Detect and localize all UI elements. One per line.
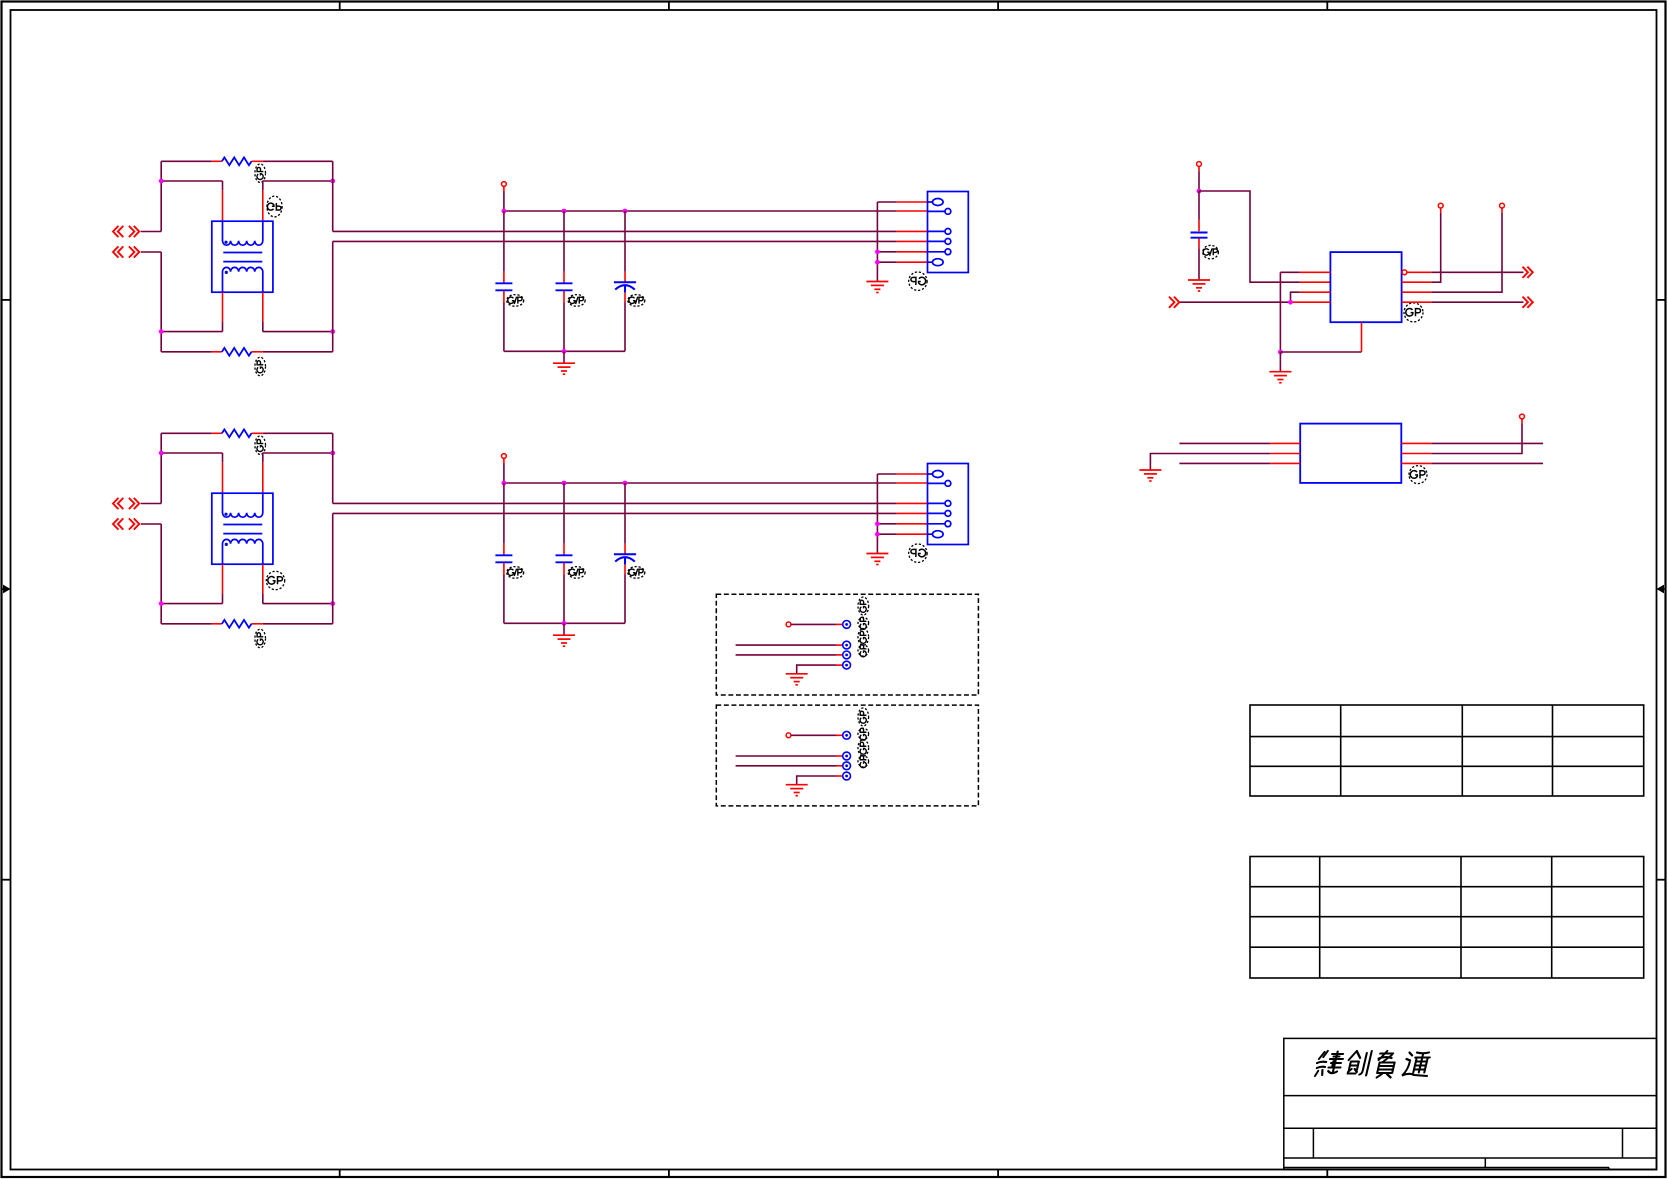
wire cap C1 lower (2) xyxy=(503,563,505,575)
junction conn-5 (1) xyxy=(875,249,880,254)
wire U1 pinC-R (TR) xyxy=(1402,291,1432,293)
wire xfmr pin bottom-left (1) xyxy=(222,292,224,322)
wire cap C3 upper (1) xyxy=(624,211,626,272)
bubble U1 pinA-R (TR) xyxy=(1402,270,1407,275)
label R1b xyxy=(255,357,266,376)
wire terminal stub (TR) xyxy=(1198,166,1200,171)
capacitor C2 (1) xyxy=(556,283,573,290)
junction cap-gnd (1) xyxy=(562,349,567,354)
resistor R1b leads xyxy=(212,351,222,353)
wire terminal stub (2) xyxy=(503,458,505,463)
wire pin4 (OPT1) xyxy=(797,665,836,673)
wire top (1) xyxy=(161,160,212,162)
wire row2 left (2) xyxy=(161,452,222,454)
IC U2 (RM) xyxy=(1300,424,1401,483)
junction rail-3 (2) xyxy=(623,481,628,486)
wire U1 pinD-R (TR) xyxy=(1402,301,1432,303)
wire xfmr pin top-left (2) xyxy=(222,453,224,462)
wire cap C3 upper (2) xyxy=(624,483,626,544)
junction rail-1 (2) xyxy=(502,481,507,486)
wire pin2 (OPT1) xyxy=(736,644,836,646)
wire row3 left (2) xyxy=(161,603,222,605)
label J1 xyxy=(909,272,927,290)
wire cap rail (1) xyxy=(504,210,897,212)
off-page connector input 1 (1) xyxy=(113,226,123,237)
wire row2 right (2) xyxy=(263,452,333,454)
wire cap C2 lower (1) xyxy=(563,291,565,303)
label C3 (1) xyxy=(628,295,645,307)
socket pin4 (OPT1) xyxy=(843,661,851,669)
terminal (OPT2) xyxy=(786,733,791,738)
wire top (2) xyxy=(161,432,212,434)
wire cap C4 upper (TR) xyxy=(1198,191,1200,220)
wire xfmr pin bottom-right (2) xyxy=(262,564,264,594)
ground (OPT2) xyxy=(786,785,808,796)
wire row3 left (1) xyxy=(161,331,222,333)
capacitor C2 (2) xyxy=(556,555,573,562)
capacitor C1 (1) xyxy=(495,283,512,290)
terminal VCC (2) xyxy=(502,454,507,459)
wire bus B (1) xyxy=(333,240,897,242)
junction gnd bus (TR) xyxy=(1278,350,1283,355)
resistor R2b xyxy=(222,620,252,628)
socket pin2 (OPT2) xyxy=(843,752,851,760)
capacitor C1 (2) xyxy=(495,555,512,562)
wire bottom (2) xyxy=(161,623,212,625)
wire xfmr pin top-left (1) xyxy=(222,181,224,190)
wire left rail upper (1) xyxy=(160,161,162,231)
junction conn-5 (2) xyxy=(875,521,880,526)
wire right rail lower (2) xyxy=(332,513,334,623)
socket pin4 (OPT2) xyxy=(843,772,851,780)
connector J1 xyxy=(928,192,969,273)
socket pin3 (OPT1) xyxy=(843,651,851,659)
wire cap C2 lower (2) xyxy=(563,563,565,575)
junction rail-2 (2) xyxy=(562,481,567,486)
terminal U2 pin2R (RM) xyxy=(1520,414,1525,419)
wire U1 pinA-R out (TR) xyxy=(1407,271,1432,273)
label R2a xyxy=(255,436,266,455)
junction pinC/D (TR) xyxy=(1288,300,1293,305)
wire cap rail (2) xyxy=(504,482,897,484)
off-page connector input 2 (2) xyxy=(113,518,123,529)
wire gnd horizontal (TR) xyxy=(1280,351,1361,353)
wire row2 right (1) xyxy=(263,180,333,182)
label net4 (OPT2) xyxy=(858,756,869,768)
wire input 1 (2) xyxy=(141,503,162,505)
ground U2 (RM) xyxy=(1139,470,1161,481)
wire pin1 (OPT2) xyxy=(791,734,836,736)
wire to IC pin2 (TR) xyxy=(1199,191,1300,282)
revision table 1 xyxy=(1250,705,1644,796)
wire bus A (1) xyxy=(333,230,897,232)
terminal (OPT1) xyxy=(786,622,791,627)
label net3 (OPT1) xyxy=(858,629,869,645)
wire input 2 (1) xyxy=(141,251,162,253)
junction row3-right (1) xyxy=(330,329,335,334)
wire gnd stub (2) xyxy=(563,623,565,635)
wire gnd stub (TR) xyxy=(1279,352,1281,371)
wire terminal stub (1) xyxy=(503,186,505,191)
wire conn pin6 (2) xyxy=(877,533,896,535)
wire right rail upper (2) xyxy=(332,433,334,503)
wire cap C4 lower (TR) xyxy=(1198,238,1200,248)
wire U1 pinD (TR) xyxy=(1180,301,1291,303)
label T1 xyxy=(267,196,282,217)
IC U1 (TR) xyxy=(1330,252,1401,322)
terminal pinC-R (TR) xyxy=(1500,203,1505,208)
wire row3 right (1) xyxy=(263,331,333,333)
wire conn pin6 (1) xyxy=(877,261,896,263)
wire xfmr pin top-right (1) xyxy=(262,181,264,190)
transformer T2 xyxy=(212,493,273,564)
wire bus B (2) xyxy=(333,512,897,514)
wire conn pin1 (1) xyxy=(877,201,896,203)
option box OPT1 xyxy=(716,594,978,695)
wire cap C3 lower (2) xyxy=(624,565,626,575)
label net1 (OPT2) xyxy=(858,708,869,726)
label C1 (2) xyxy=(507,567,524,579)
off-page connector input 2 (1) xyxy=(113,246,123,257)
terminal VCC (TR) xyxy=(1197,162,1202,167)
wire right rail lower (1) xyxy=(332,241,334,351)
wire cap C2 upper (2) xyxy=(563,483,565,544)
ground connector (1) xyxy=(866,282,888,293)
wire row2 left (1) xyxy=(161,180,222,182)
wire left rail upper (2) xyxy=(160,433,162,503)
wire cap C1 upper (2) xyxy=(503,483,505,544)
connector J2 xyxy=(928,464,969,545)
wire right rail upper (1) xyxy=(332,161,334,231)
option box OPT2 xyxy=(716,705,978,806)
junction rail-1 (1) xyxy=(502,209,507,214)
junction row3-left (1) xyxy=(159,329,164,334)
ground cap C4 (TR) xyxy=(1188,280,1210,291)
label net3 (OPT2) xyxy=(858,740,869,756)
wire U2 pin1R (RM) xyxy=(1401,442,1431,444)
capacitor C4 (TR) xyxy=(1191,233,1208,238)
ground connector (2) xyxy=(866,554,888,565)
junction cap-gnd (2) xyxy=(562,621,567,626)
label R2b xyxy=(255,629,266,648)
ground (OPT1) xyxy=(786,674,808,685)
wire pin4 (OPT2) xyxy=(797,776,836,784)
resistor R1a leads xyxy=(212,160,222,162)
socket pin1 (OPT1) xyxy=(843,621,851,629)
wire cap C1 lower (1) xyxy=(503,291,505,303)
label net2 (OPT1) xyxy=(858,617,869,629)
wire pin1 (OPT1) xyxy=(791,623,836,625)
label U2 (RM) xyxy=(1409,466,1427,484)
wire conn pin5 (2) xyxy=(877,523,896,525)
wire pin2 (OPT2) xyxy=(736,755,836,757)
junction row2-left (2) xyxy=(159,451,164,456)
label J2 xyxy=(909,544,927,562)
label C2 (1) xyxy=(568,295,585,307)
wire U2 pin3L (RM) xyxy=(1179,462,1270,464)
label R1a xyxy=(255,164,266,183)
terminal VCC (1) xyxy=(502,182,507,187)
off-page connector out D (TR) xyxy=(1523,297,1533,308)
label T2 xyxy=(266,571,284,589)
label C2 (2) xyxy=(568,567,585,579)
wire pin3 (OPT2) xyxy=(736,765,836,767)
junction TR-1 xyxy=(1197,189,1202,194)
wire cap bottom (1) xyxy=(504,350,625,352)
junction row2-left (1) xyxy=(159,179,164,184)
wire U2 pin3R (RM) xyxy=(1401,462,1431,464)
label net4 (OPT1) xyxy=(858,645,869,657)
wire conn gnd bus (1) xyxy=(876,202,878,281)
revision table 2 xyxy=(1250,857,1644,979)
wire gnd stub (1) xyxy=(563,351,565,363)
transformer T1 xyxy=(212,221,273,292)
label C3 (2) xyxy=(628,567,645,579)
wire U1 pinC (TR) xyxy=(1291,292,1300,302)
wire input 1 (1) xyxy=(141,231,162,233)
off-page connector input (TR) xyxy=(1169,297,1179,308)
off-page connector input 1 (2) xyxy=(113,498,123,509)
label U1 (TR) xyxy=(1404,303,1423,322)
label C4 (TR) xyxy=(1203,245,1219,259)
wire left rail lower (2) xyxy=(160,524,162,624)
resistor R2a leads xyxy=(212,432,222,434)
junction row3-left (2) xyxy=(159,601,164,606)
wire gnd bus vertical (TR) xyxy=(1279,272,1281,352)
wire xfmr pin bottom-right (1) xyxy=(262,292,264,322)
resistor R2a xyxy=(222,429,252,437)
wire conn pin1 (2) xyxy=(877,473,896,475)
capacitor C3 (2) xyxy=(614,554,636,564)
resistor R2b leads xyxy=(212,623,222,625)
wire U1 pinA (TR) xyxy=(1280,271,1299,273)
wire input 2 (2) xyxy=(141,523,162,525)
label C1 (1) xyxy=(507,295,524,307)
capacitor C3 (1) xyxy=(614,282,636,292)
wire cap C1 upper (1) xyxy=(503,211,505,272)
socket pin2 (OPT1) xyxy=(843,641,851,649)
wire left rail lower (1) xyxy=(160,252,162,352)
off-page connector out A (TR) xyxy=(1523,267,1533,278)
junction conn-6 (1) xyxy=(875,260,880,265)
ground cap bank (1) xyxy=(553,363,575,374)
resistor R1b xyxy=(222,348,252,356)
label net1 (OPT1) xyxy=(858,597,869,615)
ground U1 (TR) xyxy=(1269,372,1291,383)
junction row3-right (2) xyxy=(330,601,335,606)
wire conn pin5 (1) xyxy=(877,251,896,253)
label net2 (OPT2) xyxy=(858,728,869,740)
wire cap C3 lower (1) xyxy=(624,293,626,303)
wire row3 right (2) xyxy=(263,603,333,605)
resistor R1a xyxy=(222,157,252,165)
wire U2 pin1L (RM) xyxy=(1179,442,1270,444)
socket pin3 (OPT2) xyxy=(843,762,851,770)
wire conn gnd bus (2) xyxy=(876,474,878,553)
junction row2-right (2) xyxy=(330,451,335,456)
wire pin3 (OPT1) xyxy=(736,654,836,656)
company name 緯創資通 xyxy=(1314,1051,1433,1078)
title block xyxy=(1284,1038,1657,1169)
junction row2-right (1) xyxy=(330,179,335,184)
junction rail-2 (1) xyxy=(562,209,567,214)
wire xfmr pin bottom-left (2) xyxy=(222,564,224,594)
wire cap C2 upper (1) xyxy=(563,211,565,272)
junction rail-3 (1) xyxy=(623,209,628,214)
wire U1 bottom pin (TR) xyxy=(1361,322,1363,352)
wire xfmr pin top-right (2) xyxy=(262,453,264,462)
wire bottom (1) xyxy=(161,351,212,353)
terminal pinB-R (TR) xyxy=(1438,203,1443,208)
socket pin1 (OPT2) xyxy=(843,731,851,739)
wire cap bottom (2) xyxy=(504,622,625,624)
junction conn-6 (2) xyxy=(875,532,880,537)
ground cap bank (2) xyxy=(553,635,575,646)
wire U2 pin2R (RM) xyxy=(1401,453,1431,455)
wire U2 pin2L (RM) xyxy=(1150,454,1270,470)
wire bus A (2) xyxy=(333,502,897,504)
wire U1 pinB-R (TR) xyxy=(1402,281,1432,283)
